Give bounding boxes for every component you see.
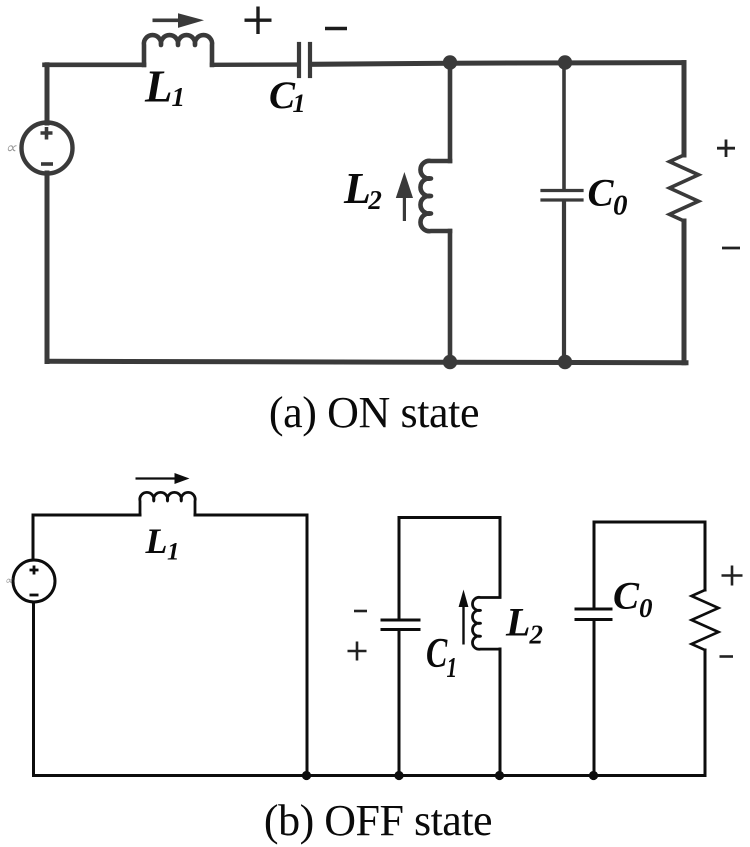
node: b bottom rail / left loop — [302, 771, 311, 780]
wire: a top-left vertical from source to top rail — [45, 65, 50, 123]
wire: a from C1 to right corner of top rail — [312, 63, 684, 65]
voltage source Vin (b) — [13, 560, 55, 602]
minus sign inside source (b) — [30, 594, 39, 597]
capacitor C1 (a) plates — [299, 44, 310, 76]
resistor R load (a) — [670, 155, 699, 221]
resistor R load (b) — [692, 590, 719, 650]
svg-text:C0: C0 — [588, 172, 628, 222]
inductor L2 (a) — [420, 161, 450, 231]
wire: b right loop left vertical upper — [593, 522, 596, 608]
node: b bottom rail / L2 — [495, 771, 504, 780]
svg-text:L1: L1 — [144, 62, 185, 113]
wire: a between L1 and C1 — [212, 62, 296, 67]
svg-text:L1: L1 — [145, 521, 180, 566]
wire: b left loop right vertical — [306, 515, 309, 776]
inductor L1 (a) — [144, 35, 212, 65]
current arrow beside L2 (a) — [396, 172, 413, 221]
current arrow beside L2 (b) — [459, 590, 469, 645]
minus sign inside source (a) — [41, 162, 53, 166]
wire: a right vertical lower (resistor to bottom rail) — [682, 221, 687, 363]
wire: a C0 branch bottom vertical — [562, 201, 566, 362]
wire: a left vertical below source — [45, 173, 50, 362]
node: a top rail / L2 junction — [443, 55, 457, 69]
minus sign above C1 (a) — [325, 27, 347, 30]
node: a bottom rail / L2 junction — [443, 355, 457, 369]
inductor L1 (b) — [140, 492, 195, 515]
wire: b right loop right vertical lower — [704, 650, 707, 776]
capacitor C0 (b) plates — [576, 609, 611, 620]
current arrow above L1 (b) — [136, 473, 190, 484]
node: a bottom rail / C0 junction — [558, 355, 572, 369]
svg-text:(a) ON state: (a) ON state — [269, 388, 479, 437]
plus sign inside source (b) — [30, 566, 39, 575]
svg-text:∝: ∝ — [5, 140, 17, 157]
wire: a top rail from left corner to L1 — [45, 63, 145, 68]
minus sign at load bottom (a) — [722, 247, 740, 250]
svg-text:C1: C1 — [269, 74, 306, 118]
svg-text:C0: C0 — [613, 575, 653, 624]
wire: b middle loop right vertical lower — [499, 649, 502, 776]
wire: b right loop left vertical lower — [593, 621, 596, 776]
node dots (b) — [302, 771, 598, 780]
svg-text:L2: L2 — [505, 600, 543, 650]
wire: b middle loop right vertical upper — [499, 518, 502, 598]
svg-text:L2: L2 — [343, 164, 382, 215]
wire: b middle loop left vertical lower — [398, 631, 401, 776]
wire: b left loop top rail right of L1 — [195, 514, 307, 517]
wire: b bottom rail — [34, 774, 706, 777]
wire: b middle loop top rail — [399, 516, 500, 519]
minus sign left of C1 (b) — [354, 610, 367, 613]
svg-text:C1: C1 — [426, 631, 457, 684]
svg-text:(b) OFF state: (b) OFF state — [264, 796, 492, 845]
node: b bottom rail / C0 — [589, 771, 598, 780]
wire: b middle loop left vertical upper — [398, 518, 401, 620]
wire: a C0 branch top vertical — [562, 63, 566, 189]
capacitor C0 (a) plates — [542, 191, 582, 201]
wire: b right loop right vertical upper — [704, 522, 707, 590]
capacitor C1 (b) plates — [382, 620, 419, 630]
svg-text:∝: ∝ — [5, 575, 14, 587]
plus sign above C1 (a) — [245, 7, 272, 35]
plus sign at load top (a) — [717, 140, 735, 158]
wire: a right vertical upper (to resistor) — [682, 63, 687, 155]
plus sign left of C1 (b) — [348, 642, 367, 661]
plus sign inside source (a) — [41, 127, 53, 140]
wire: b right loop top rail — [594, 521, 705, 524]
minus sign at load bottom (b) — [720, 655, 734, 658]
current arrow above L1 (a) — [153, 13, 205, 28]
wire: b left vertical below source — [32, 602, 35, 776]
wire: b left loop top rail — [33, 514, 140, 517]
wire: a bottom rail — [47, 361, 686, 363]
node: a top rail / C0 junction — [558, 55, 572, 69]
inductor L2 (b) — [473, 597, 500, 649]
wire: b left vertical above source — [32, 515, 35, 560]
wire: a L2 branch top vertical — [448, 63, 453, 161]
wire: a L2 branch bottom vertical — [448, 231, 453, 362]
node dots (a) — [443, 55, 572, 369]
plus sign at load top (b) — [722, 566, 743, 586]
voltage source Vin (a) — [22, 123, 73, 174]
node: b bottom rail / C1 — [394, 771, 403, 780]
